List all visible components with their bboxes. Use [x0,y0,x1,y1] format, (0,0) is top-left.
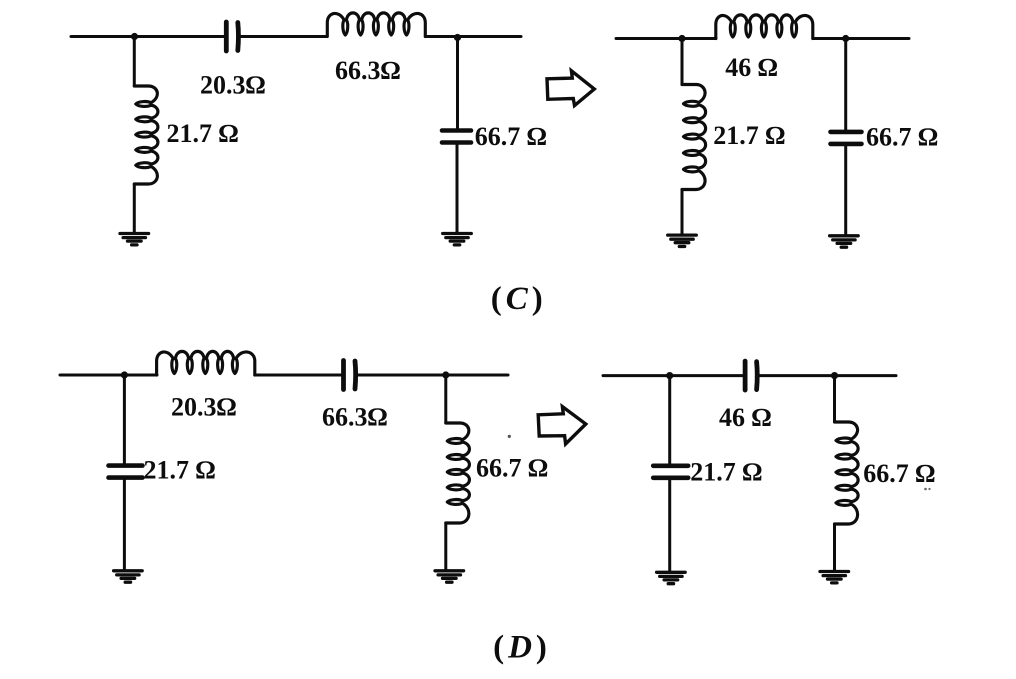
inductor 46 Ω (series, row1-right) [716,15,813,39]
wire: row1-right top wire output segment [813,37,909,40]
wire: row2-left top wire output segment [355,374,508,377]
node: row1-right output node [842,35,849,42]
inductor 66.7 Ω (shunt, row2-left) [446,423,470,523]
node: row1-right input node [678,35,685,42]
wire: row2-right shunt inductor branch upper [833,376,836,422]
ground: row1-right shunt inductor [668,235,697,246]
wire: row1-left cap branch lower [456,143,459,234]
capacitor 66.7 Ω (shunt, row1-right) [831,132,862,144]
ground: row2-left shunt inductor [435,571,464,582]
ground: row2-right shunt capacitor [657,572,686,583]
inductor 20.3Ω (series, row2-left) [157,351,255,375]
wire: row2-right shunt inductor branch lower [833,524,836,571]
stray dot artifact [508,435,511,438]
node: row2-right output node [831,372,838,379]
svg-text:20.3Ω: 20.3Ω [200,71,266,100]
capacitor 21.7 Ω (shunt, row2-right) [653,466,688,478]
wire: row1-left between capacitor and inductor [238,35,327,38]
wire: row2-right top wire output segment [757,374,896,377]
svg-text:66.7 Ω: 66.7 Ω [863,459,935,488]
wire: row1-right shunt inductor branch lower [681,190,684,236]
wire: row1-left cap branch upper [456,37,459,131]
svg-text:66.7 Ω: 66.7 Ω [866,123,938,152]
wire: row1-left shunt branch lower (coil to ground) [133,184,136,233]
capacitor 21.7 Ω (shunt, row2-left) [109,466,143,478]
svg-text:21.7 Ω: 21.7 Ω [167,119,239,148]
wire: row2-right shunt cap branch upper [668,376,671,465]
node: row2-right input node [666,372,673,379]
ground: row1-left shunt inductor [120,234,149,245]
svg-text:(C): (C) [491,281,547,317]
wire: row2-left shunt cap branch upper [123,375,126,465]
wire: row1-right cap branch upper [844,39,847,132]
wire: row2-right top wire input segment [603,374,745,377]
ground: row1-left shunt capacitor [443,234,472,245]
wire: row2-left shunt cap branch lower [123,478,126,571]
wire: row1-left top wire output segment [425,35,521,38]
wire: row1-right top wire input segment [616,37,716,40]
node: row1-left input node [131,33,138,40]
dots artifact under label [924,488,927,491]
wire: row1-right cap branch lower [844,144,847,235]
svg-text:20.3Ω: 20.3Ω [171,392,237,421]
wire: row2-left top wire input segment [60,374,157,377]
svg-text:66.7 Ω: 66.7 Ω [475,122,547,151]
svg-text:21.7 Ω: 21.7 Ω [690,458,762,487]
capacitor 20.3Ω (series, row1-left) [226,22,238,51]
wire: row1-left top wire input segment [71,35,226,38]
node: row2-left input node [121,371,128,378]
wire: row2-right shunt cap branch lower [668,478,671,572]
capacitor 46 Ω (series, row2-right) [745,361,757,390]
node: row2-left output node [442,371,449,378]
capacitor 66.7 Ω (shunt, row1-left) [442,131,471,143]
wire: row1-left shunt branch upper (node to coil) [133,37,136,87]
wire: row1-right shunt inductor branch upper [681,39,684,85]
svg-text:21.7 Ω: 21.7 Ω [144,456,216,485]
svg-text:(D): (D) [493,630,551,666]
inductor 21.7Ω (shunt, row1-left) [134,86,158,184]
svg-text:21.7 Ω: 21.7 Ω [713,121,785,150]
ground: row2-right shunt inductor [820,572,849,583]
capacitor 66.3Ω (series, row2-left) [344,361,356,390]
svg-text:66.3Ω: 66.3Ω [322,403,388,432]
ground: row2-left shunt capacitor [114,571,143,582]
svg-text:46 Ω: 46 Ω [725,53,778,82]
inductor 66.3Ω (series, row1-left) [327,13,425,37]
wire: row2-left shunt inductor branch lower [444,523,447,571]
svg-text:66.7 Ω: 66.7 Ω [476,454,548,483]
node: row1-left output node [454,34,461,41]
svg-text:66.3Ω: 66.3Ω [335,56,401,85]
wire: row2-left between inductor and capacitor [255,374,343,377]
inductor 21.7 Ω (shunt, row1-right) [682,85,706,190]
arrow: row2 transform arrow [538,407,586,444]
ground: row1-right shunt capacitor [830,236,859,247]
svg-text:46 Ω: 46 Ω [719,403,772,432]
inductor 66.7 Ω (shunt, row2-right) [835,422,859,524]
arrow: row1 transform arrow [547,71,594,106]
wire: row2-left shunt inductor branch upper [444,375,447,423]
